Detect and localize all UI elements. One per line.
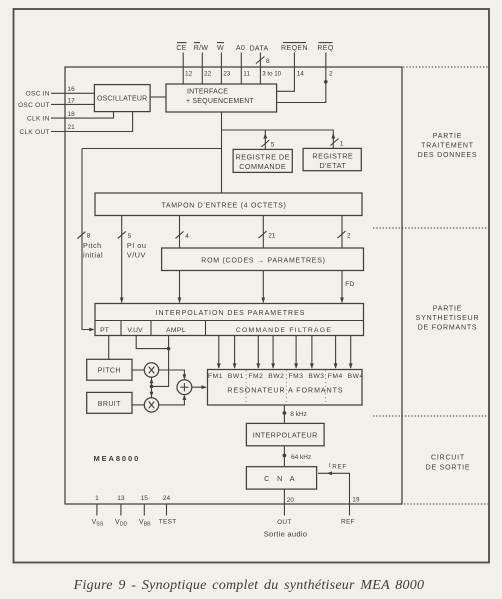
svg-text:2: 2 bbox=[329, 71, 333, 78]
svg-text:TAMPON D'ENTREE (4 OCTETS): TAMPON D'ENTREE (4 OCTETS) bbox=[161, 202, 286, 209]
svg-text:V/UV: V/UV bbox=[127, 250, 146, 259]
svg-text:14: 14 bbox=[297, 71, 305, 78]
svg-text:21: 21 bbox=[268, 233, 276, 240]
svg-text:5: 5 bbox=[128, 233, 132, 240]
pin OSC OUT bbox=[18, 98, 94, 109]
svg-text:Pitch: Pitch bbox=[83, 241, 102, 250]
svg-text:12: 12 bbox=[185, 71, 193, 78]
wire X1 to adder bbox=[159, 370, 187, 380]
pitch block bbox=[87, 359, 132, 380]
wire X2 to adder bbox=[159, 395, 187, 405]
pin TEST bbox=[159, 495, 177, 525]
svg-text:MEA8000: MEA8000 bbox=[94, 454, 141, 463]
pin R/W bbox=[194, 43, 212, 84]
pin CE bbox=[176, 43, 192, 84]
svg-text:INTERFACE: INTERFACE bbox=[187, 89, 228, 96]
svg-text:FM2 BW2: FM2 BW2 bbox=[248, 373, 284, 380]
wire register feed horizontal bbox=[222, 129, 334, 131]
multiplier X1 bbox=[144, 363, 158, 377]
main chip boundary MEA8000 bbox=[65, 67, 402, 504]
svg-text:FM1 BW1: FM1 BW1 bbox=[208, 373, 244, 380]
pin VBB bbox=[139, 495, 151, 528]
wire IREF into CNA bbox=[318, 471, 360, 504]
svg-text:21: 21 bbox=[68, 124, 76, 131]
pin REF bbox=[341, 504, 355, 525]
wire amplitude to X1 and X2 bbox=[150, 377, 154, 398]
pin CLK OUT bbox=[20, 112, 133, 136]
pin OSC IN bbox=[26, 86, 95, 98]
wire bus 21 to ROM bbox=[259, 216, 276, 249]
wire interface to tampon bbox=[221, 112, 223, 193]
svg-text:OUT: OUT bbox=[277, 519, 292, 526]
svg-text:R/W: R/W bbox=[194, 45, 209, 52]
pin DATA bus bbox=[250, 46, 282, 85]
svg-text:17: 17 bbox=[68, 98, 76, 105]
svg-text:CE: CE bbox=[176, 45, 186, 52]
svg-text:V.UV: V.UV bbox=[127, 327, 143, 334]
svg-text:BRUIT: BRUIT bbox=[98, 401, 121, 408]
svg-text:DE FORMANTS: DE FORMANTS bbox=[418, 325, 478, 332]
svg-text:3 to 10: 3 to 10 bbox=[262, 71, 281, 78]
cell V.UV bbox=[127, 321, 151, 336]
svg-text:INTERPOLATION DES PARAMETRES: INTERPOLATION DES PARAMETRES bbox=[156, 310, 306, 317]
wire pitch initial bus 8 bbox=[77, 149, 103, 332]
svg-text:24: 24 bbox=[163, 495, 171, 502]
svg-text:+ SEQUENCEMENT: + SEQUENCEMENT bbox=[186, 98, 254, 105]
section label PARTIE SYNTHETISEUR DE FORMANTS bbox=[416, 306, 480, 332]
wire CNA out bbox=[284, 489, 294, 504]
filter command wires BW4 bbox=[349, 336, 353, 369]
svg-text:OSC IN: OSC IN bbox=[26, 91, 50, 98]
wire bus 5 PI ou V/UV bbox=[118, 216, 147, 304]
svg-text:Sortie audio: Sortie audio bbox=[264, 530, 308, 539]
wire resonator to interpolateur 8kHz bbox=[283, 405, 307, 423]
dashed separator middle (formant section) bbox=[373, 227, 488, 229]
section label CIRCUIT DE SORTIE bbox=[426, 455, 471, 472]
svg-text:Figure 9 - Synoptique complet: Figure 9 - Synoptique complet du synthét… bbox=[73, 578, 425, 593]
svg-text:AMPL: AMPL bbox=[166, 327, 186, 334]
pin REQEN bbox=[277, 43, 308, 92]
pin A0 bbox=[236, 45, 251, 84]
wire AMPL feed bbox=[150, 336, 169, 389]
dashed separator lower (output section) bbox=[373, 415, 488, 417]
svg-text:20: 20 bbox=[287, 497, 295, 504]
svg-text:ROM (CODES → PARAMETRES): ROM (CODES → PARAMETRES) bbox=[201, 257, 325, 264]
svg-text:5: 5 bbox=[271, 142, 275, 149]
svg-text:D'ETAT: D'ETAT bbox=[319, 161, 346, 170]
pin VDD bbox=[115, 495, 127, 528]
cell PT bbox=[100, 321, 121, 336]
filter command wires BW3 bbox=[310, 336, 314, 369]
svg-text:REGISTRE: REGISTRE bbox=[312, 152, 353, 161]
svg-text:OSCILLATEUR: OSCILLATEUR bbox=[97, 96, 147, 103]
svg-text:COMMANDE FILTRAGE: COMMANDE FILTRAGE bbox=[236, 327, 332, 334]
adder bbox=[177, 380, 192, 395]
dashed separator top (data section) bbox=[403, 66, 488, 68]
svg-text:COMMANDE: COMMANDE bbox=[239, 162, 286, 171]
interpolation des parametres block bbox=[95, 304, 364, 336]
svg-text:DES DONNEES: DES DONNEES bbox=[418, 152, 478, 159]
svg-text:PARTIE: PARTIE bbox=[433, 133, 462, 140]
wire bus 1 to registre d'etat bbox=[331, 130, 344, 148]
svg-text:DATA: DATA bbox=[250, 46, 269, 53]
multiplier X2 bbox=[144, 398, 158, 412]
svg-text:23: 23 bbox=[223, 71, 231, 78]
svg-text:15: 15 bbox=[141, 495, 149, 502]
wire oscillator to interface bbox=[150, 96, 166, 98]
section label PARTIE TRAITEMENT DES DONNEES bbox=[418, 133, 478, 159]
filter command wires FM2 bbox=[256, 336, 260, 369]
registre de commande block bbox=[233, 149, 292, 172]
svg-text:A0: A0 bbox=[236, 45, 245, 52]
wire adder to resonator bbox=[192, 385, 207, 389]
wire bus 4 to ROM bbox=[176, 216, 190, 249]
svg-text:8: 8 bbox=[266, 58, 270, 65]
filter command wires FM4 bbox=[334, 336, 338, 369]
filter command wires FM1 bbox=[217, 336, 221, 369]
svg-text:PARTIE: PARTIE bbox=[433, 306, 462, 313]
wire interpolateur to CNA 64kHz bbox=[283, 446, 312, 467]
wire bus 2 to ROM bbox=[338, 216, 352, 249]
svg-text:13: 13 bbox=[117, 495, 125, 502]
resonateur a formants block bbox=[208, 370, 364, 406]
wire ROM out mid bbox=[261, 271, 265, 304]
pin CLK IN bbox=[27, 111, 113, 122]
wire pitch to multiplier bbox=[132, 369, 144, 371]
svg-text:FM4 BW4: FM4 BW4 bbox=[328, 373, 364, 380]
svg-text:PITCH: PITCH bbox=[98, 368, 121, 375]
svg-text:1: 1 bbox=[95, 495, 99, 502]
filter command wires BW1 bbox=[233, 336, 237, 369]
pin OUT sortie audio bbox=[264, 504, 308, 539]
filter command wires BW2 bbox=[271, 336, 275, 369]
svg-text:CLK IN: CLK IN bbox=[27, 115, 50, 122]
tampon d'entree block bbox=[95, 193, 362, 216]
svg-text:22: 22 bbox=[204, 71, 212, 78]
svg-text:FM3 BW3: FM3 BW3 bbox=[289, 373, 325, 380]
svg-text:18: 18 bbox=[68, 111, 76, 118]
svg-text:FD: FD bbox=[345, 281, 354, 288]
svg-text:4: 4 bbox=[185, 233, 189, 240]
svg-text:W: W bbox=[217, 45, 224, 52]
interpolateur block bbox=[246, 423, 324, 445]
svg-text:initial: initial bbox=[83, 250, 103, 259]
svg-text:1: 1 bbox=[340, 141, 344, 148]
ROM block bbox=[162, 248, 364, 271]
filter command wires FM3 bbox=[294, 336, 298, 369]
svg-text:INTERPOLATEUR: INTERPOLATEUR bbox=[253, 431, 318, 440]
caption Figure 9 bbox=[73, 578, 425, 593]
svg-text:TEST: TEST bbox=[159, 518, 177, 525]
wire bruit to multiplier bbox=[132, 404, 144, 406]
svg-text:SYNTHETISEUR: SYNTHETISEUR bbox=[416, 315, 480, 322]
svg-text:TRAITEMENT: TRAITEMENT bbox=[421, 143, 474, 150]
svg-text:REF: REF bbox=[341, 518, 355, 525]
wire bus 5 to registre de commande bbox=[261, 130, 275, 149]
svg-text:CIRCUIT: CIRCUIT bbox=[431, 455, 465, 462]
bruit block bbox=[87, 392, 132, 413]
label MEA8000 bbox=[94, 454, 141, 463]
label IREF bbox=[329, 463, 347, 471]
svg-text:19: 19 bbox=[352, 496, 360, 503]
svg-text:REQEN: REQEN bbox=[281, 45, 308, 52]
wire FD bbox=[340, 271, 354, 304]
cell AMPL bbox=[166, 321, 206, 336]
oscillator block bbox=[94, 85, 150, 112]
svg-text:11: 11 bbox=[243, 71, 250, 78]
pin REQ bbox=[277, 43, 334, 103]
svg-text:OSC OUT: OSC OUT bbox=[18, 102, 50, 109]
wire pitch branch horizontal bbox=[82, 148, 222, 150]
interface + sequencement block bbox=[166, 84, 277, 112]
svg-text:REQ: REQ bbox=[317, 45, 334, 52]
dashed separator bottom bbox=[404, 503, 488, 505]
svg-text:REF: REF bbox=[332, 464, 347, 471]
svg-text:8 kHz: 8 kHz bbox=[290, 411, 307, 418]
svg-text:PT: PT bbox=[100, 327, 109, 334]
svg-text:C N A: C N A bbox=[264, 474, 297, 483]
registre d'etat block bbox=[303, 148, 361, 170]
wire ROM out left bbox=[178, 271, 182, 304]
CNA block bbox=[246, 467, 316, 489]
svg-text:DE SORTIE: DE SORTIE bbox=[426, 465, 471, 472]
svg-text:64 kHz: 64 kHz bbox=[291, 454, 311, 461]
svg-text:REGISTRE DE: REGISTRE DE bbox=[235, 153, 289, 162]
svg-text:2: 2 bbox=[347, 233, 351, 240]
pin VSS bbox=[92, 495, 104, 528]
svg-text:CLK OUT: CLK OUT bbox=[20, 129, 50, 136]
wire PT to pitch bbox=[108, 336, 110, 360]
svg-text:8: 8 bbox=[87, 233, 91, 240]
wire V.UV branch bbox=[136, 336, 170, 351]
cell COMMANDE FILTRAGE bbox=[236, 327, 332, 334]
pin W bbox=[217, 43, 231, 84]
svg-text:16: 16 bbox=[68, 86, 76, 93]
svg-text:RESONATEUR A FORMANTS: RESONATEUR A FORMANTS bbox=[227, 388, 343, 395]
svg-text:PI ou: PI ou bbox=[127, 241, 147, 250]
